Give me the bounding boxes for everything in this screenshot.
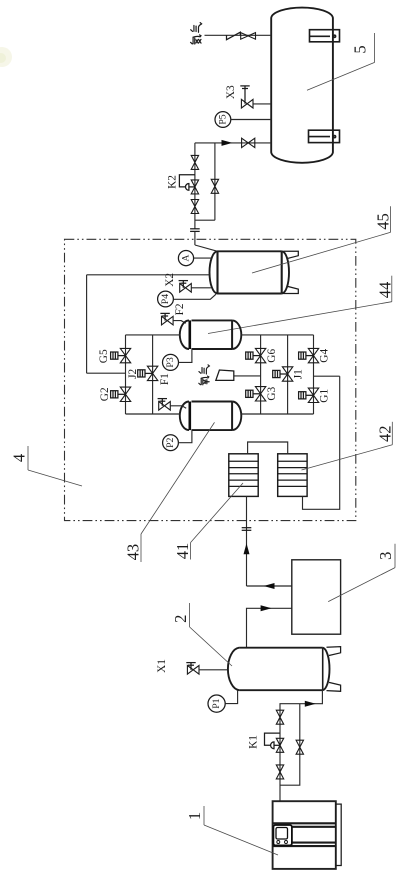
svg-text:G6: G6 (266, 349, 278, 363)
svg-text:G4: G4 (319, 349, 331, 363)
svg-text:X3: X3 (225, 85, 237, 99)
svg-text:43: 43 (124, 544, 143, 561)
svg-text:X1: X1 (156, 659, 168, 673)
svg-text:G3: G3 (266, 386, 278, 400)
svg-text:1: 1 (185, 812, 204, 820)
svg-text:X2: X2 (164, 273, 176, 287)
svg-text:41: 41 (173, 543, 192, 560)
svg-text:G1: G1 (319, 389, 331, 403)
svg-text:A: A (181, 255, 192, 262)
svg-text:P5: P5 (217, 114, 228, 124)
svg-text:G2: G2 (99, 387, 111, 401)
svg-text:F2: F2 (174, 303, 186, 315)
svg-text:P2: P2 (165, 437, 176, 447)
svg-text:42: 42 (376, 425, 395, 442)
svg-text:F1: F1 (159, 373, 171, 385)
svg-text:P4: P4 (160, 294, 171, 304)
svg-text:3: 3 (376, 552, 395, 560)
svg-text:J2: J2 (127, 369, 139, 379)
svg-text:45: 45 (374, 213, 393, 230)
svg-text:5: 5 (351, 45, 370, 53)
svg-text:P3: P3 (165, 357, 176, 367)
svg-text:K1: K1 (248, 735, 260, 749)
svg-text:P1: P1 (211, 698, 222, 708)
svg-text:4: 4 (10, 454, 29, 462)
svg-text:G5: G5 (98, 349, 110, 363)
svg-text:2: 2 (171, 615, 190, 623)
svg-text:K2: K2 (167, 175, 179, 189)
svg-text:J1: J1 (293, 369, 305, 379)
